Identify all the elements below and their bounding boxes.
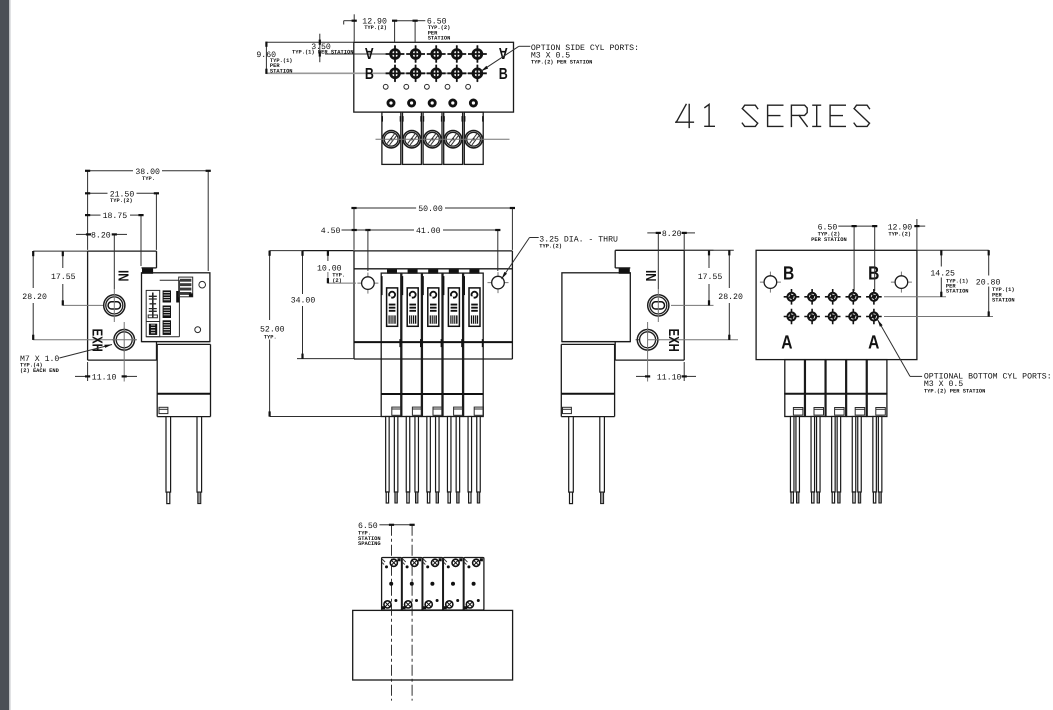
svg-text:STATION: STATION	[270, 68, 293, 74]
valve station 3 (bottom center view)	[423, 558, 443, 611]
pilot hole station 5	[466, 84, 471, 89]
manifold plate (bottom center view)	[353, 610, 513, 680]
mounting screw station 3	[428, 99, 437, 108]
svg-text:11.10: 11.10	[92, 374, 117, 383]
lead wire 2 (left view)	[197, 417, 202, 504]
pilot hole station 4	[445, 84, 450, 89]
solenoid block (right view)	[562, 341, 630, 343]
bottom cyl port B station 2	[804, 289, 820, 305]
lead wires station 1 bottom view	[790, 417, 794, 504]
svg-text:TYP.: TYP.	[142, 176, 155, 182]
svg-text:TYP.(2): TYP.(2)	[888, 231, 911, 237]
svg-text:B: B	[365, 66, 374, 83]
dimension 12.90 TYP.(2)	[353, 14, 355, 41]
EXH horizontal centerline right	[648, 339, 738, 341]
EXH port (left view)	[112, 328, 136, 352]
lead wires station 1	[386, 417, 390, 504]
valve station 4 front	[443, 269, 463, 417]
valve station 1 bottom view	[785, 360, 805, 417]
dimension 28.20 (left)	[32, 251, 34, 288]
svg-text:STATION: STATION	[428, 36, 451, 42]
dimension 18.75	[88, 214, 101, 216]
svg-text:B: B	[868, 263, 879, 284]
svg-text:A: A	[781, 332, 792, 353]
svg-text:(2) EACH END: (2) EACH END	[20, 368, 60, 374]
pilot hole station 1	[383, 84, 388, 89]
dimension 50.00	[354, 207, 416, 209]
top view manifold body	[354, 42, 514, 112]
callout 3.25 DIA. - THRU TYP.(2)	[530, 237, 539, 239]
bottom cyl port A station 2	[804, 309, 820, 325]
svg-text:17.55: 17.55	[698, 273, 723, 282]
valve station 5 bottom view	[867, 360, 887, 417]
valve screw holes	[199, 281, 206, 288]
valve internal connector detail	[146, 277, 193, 337]
manifold plate bottom view	[756, 250, 917, 359]
svg-text:IN: IN	[114, 270, 130, 281]
valve body (right view)	[562, 273, 630, 342]
valve station 5 front	[463, 269, 483, 417]
dimension 11.10 (right)	[636, 375, 648, 377]
side cyl port B station 5	[468, 65, 487, 83]
callout OPTION SIDE CYL PORTS	[519, 45, 531, 47]
svg-text:17.55: 17.55	[51, 273, 76, 282]
svg-text:TYP.: TYP.	[264, 334, 277, 340]
lead wire 1 (left view)	[166, 417, 171, 504]
svg-text:14.25: 14.25	[930, 269, 955, 278]
svg-text:41.00: 41.00	[416, 227, 441, 236]
svg-text:TYP.(2) PER STATION: TYP.(2) PER STATION	[924, 388, 985, 394]
dimension 14.25 TYP.(1) PER STATION	[940, 250, 942, 266]
side cyl port B station 2	[406, 65, 425, 83]
top view valve station 5 body	[464, 112, 484, 164]
svg-text:STATION: STATION	[946, 289, 969, 295]
side cyl port B station 4	[447, 65, 466, 83]
svg-text:TYP.(2): TYP.(2)	[539, 244, 562, 250]
IN port centerline	[113, 289, 115, 322]
valve station 2 front	[402, 269, 422, 417]
svg-text:EXH: EXH	[665, 329, 681, 352]
valve station 5 (bottom center view)	[464, 558, 484, 611]
dimension 4.50	[342, 229, 368, 231]
svg-text:11.10: 11.10	[657, 374, 682, 383]
lead wire 1 (right view)	[569, 417, 574, 504]
bottom cyl port B station 1	[784, 289, 800, 305]
lead wires station 2 bottom view	[811, 417, 815, 504]
lead wire 2 (right view)	[600, 417, 605, 504]
bottom cyl port A station 1	[784, 309, 800, 325]
lead wires station 4 bottom view	[852, 417, 856, 504]
dimension 6.50 TYP. STATION SPACING	[379, 524, 391, 526]
mounting hole left (3.25 dia)	[357, 273, 378, 294]
dimension 52.00 TYP.	[269, 251, 271, 320]
EXH centerline right	[647, 322, 649, 382]
side cyl port B station 1	[386, 65, 405, 83]
side cyl port A station 3	[427, 45, 446, 63]
dimension 28.20 (right)	[728, 250, 730, 288]
valve station 3 bottom view	[826, 360, 846, 417]
top view valve station 4 body	[443, 112, 463, 164]
dimension 6.50 TYP.(2) PER STATION	[395, 20, 416, 22]
valve station 4 bottom view	[847, 360, 867, 417]
valve body (left view)	[142, 273, 210, 342]
dimension 12.90 TYP.(2) (bottom view)	[917, 225, 925, 227]
dimension 17.55 (left)	[62, 251, 64, 268]
svg-text:4.50: 4.50	[321, 227, 341, 236]
bottom cyl port A station 5	[866, 309, 882, 325]
IN port (left view)	[104, 295, 125, 316]
svg-text:20.80: 20.80	[976, 278, 1001, 287]
dimension 17.55 (right)	[708, 250, 710, 268]
mounting hole right (3.25 dia)	[488, 272, 509, 293]
A row extension line	[325, 53, 396, 55]
lead wires station 5	[468, 417, 472, 504]
svg-text:A: A	[868, 332, 879, 353]
valve station 1 (bottom center view)	[382, 558, 402, 611]
svg-text:TYP.(2): TYP.(2)	[364, 25, 387, 31]
mounting screw station 1	[387, 99, 396, 108]
callout OPTIONAL BOTTOM CYL PORTS	[910, 375, 922, 377]
svg-text:B: B	[783, 263, 794, 284]
top view valve station 3 body	[423, 112, 443, 164]
manifold end plate (left view)	[88, 250, 157, 252]
mounting hole right	[891, 272, 912, 293]
svg-text:PER STATION: PER STATION	[811, 237, 847, 243]
svg-text:TYP.(2): TYP.(2)	[110, 198, 133, 204]
IN port (right view)	[648, 295, 669, 316]
title 41 SERIES	[676, 104, 870, 127]
lead wires station 4	[447, 417, 451, 504]
mounting hole left	[760, 272, 781, 293]
dimension 3.50 TYP.(1) PER STATION	[319, 34, 321, 63]
valve cap black	[142, 269, 153, 274]
svg-text:8.20: 8.20	[662, 230, 682, 239]
center line station 2	[411, 525, 413, 701]
top view valve station 2 body	[402, 112, 422, 164]
solenoid block (left view)	[142, 341, 210, 343]
lead wires station 3	[427, 417, 431, 504]
bottom cyl port A station 3	[825, 309, 841, 325]
dimension 8.20 (right)	[647, 232, 658, 234]
solenoid tab right	[563, 407, 572, 413]
manifold plate front	[354, 250, 512, 252]
valve station 2 (bottom center view)	[402, 558, 422, 611]
svg-text:28.20: 28.20	[718, 293, 743, 302]
dimension 6.50 TYP.(2) PER STATION (bottom view)	[838, 225, 854, 227]
side cyl port A station 4	[447, 45, 466, 63]
pilot hole station 2	[404, 84, 409, 89]
svg-text:TYP.(1) PER STATION: TYP.(1) PER STATION	[292, 49, 353, 55]
svg-text:34.00: 34.00	[291, 297, 316, 306]
mounting screw station 5	[469, 99, 478, 108]
dimension 34.00	[302, 251, 304, 294]
EXH port centerline	[123, 322, 125, 382]
pilot hole station 3	[425, 84, 430, 89]
side cyl port B station 3	[427, 65, 446, 83]
side cyl port A station 2	[406, 45, 425, 63]
dimension 11.10 (left)	[75, 375, 88, 377]
top view valve station 1 body	[381, 112, 401, 164]
svg-text:50.00: 50.00	[418, 205, 443, 214]
A row ext line	[884, 316, 993, 318]
left window edge strip	[0, 0, 9, 710]
svg-text:52.00: 52.00	[260, 325, 285, 334]
EXH horizontal centerline	[33, 339, 137, 341]
svg-text:18.75: 18.75	[103, 212, 128, 221]
bottom cyl port B station 4	[846, 289, 862, 305]
top view knob center line	[376, 138, 510, 140]
svg-text:STATION: STATION	[992, 298, 1015, 304]
svg-text:TYP.(2) PER STATION: TYP.(2) PER STATION	[531, 60, 592, 66]
IN port centerline right	[657, 289, 659, 322]
manifold end plate (right view)	[615, 249, 684, 251]
dimension 41.00	[368, 229, 414, 231]
svg-text:IN: IN	[642, 270, 658, 281]
dimension 21.50 TYP.(2)	[88, 192, 108, 194]
valve station 4 (bottom center view)	[443, 558, 463, 611]
lead wires station 5 bottom view	[873, 417, 877, 504]
svg-text:SPACING: SPACING	[358, 541, 381, 547]
lead wires station 3 bottom view	[832, 417, 836, 504]
callout M7 X 1.0 TYP.(4) (2) EACH END	[59, 345, 112, 359]
center line station 1	[391, 525, 393, 701]
solenoid tab	[159, 407, 168, 413]
dimension 10.00 TYP.(2)	[327, 251, 329, 261]
dimension 8.20 (left)	[76, 233, 89, 235]
EXH port (right view)	[636, 328, 660, 352]
dimension 20.80 TYP.(1) PER STATION	[988, 250, 990, 275]
B row ext line	[884, 296, 946, 298]
bottom cyl port B station 3	[825, 289, 841, 305]
valve cap black (right view)	[619, 269, 630, 274]
side cyl port A station 5	[468, 45, 487, 63]
valve station 1 front	[381, 269, 401, 417]
svg-text:A: A	[364, 44, 373, 61]
side cyl port A station 1	[386, 45, 405, 63]
svg-text:8.20: 8.20	[91, 232, 111, 241]
bottom cyl port B station 5	[866, 289, 882, 305]
dimension 9.60 TYP.(1) PER STATION	[265, 42, 267, 73]
svg-text:B: B	[499, 66, 508, 83]
svg-text:28.20: 28.20	[22, 293, 47, 302]
lead wires station 2	[406, 417, 410, 504]
mounting screw station 4	[448, 99, 457, 108]
mounting screw station 2	[407, 99, 416, 108]
valve station 3 front	[422, 269, 442, 417]
svg-text:(2): (2)	[332, 278, 342, 284]
valve station 2 bottom view	[805, 360, 825, 417]
dimension 38.00 TYP.	[88, 170, 133, 172]
B row extension line (9.60)	[266, 72, 479, 74]
bottom cyl port A station 4	[846, 309, 862, 325]
